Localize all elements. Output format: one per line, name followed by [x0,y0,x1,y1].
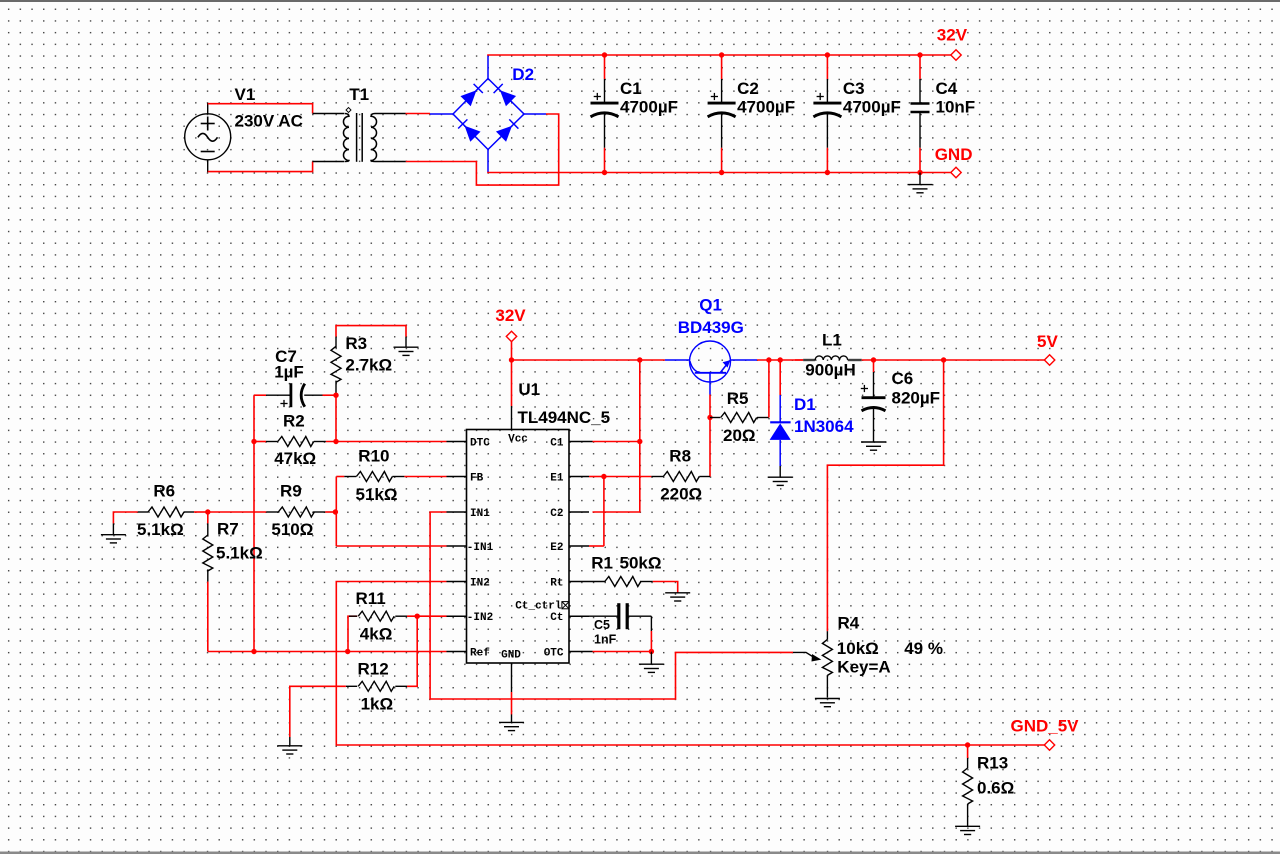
wire OTC pin [593,651,652,653]
wire R2 to DTC [326,441,447,443]
T1 secondary coil [371,114,377,162]
pin stub DTC [447,441,467,443]
R2 left lead [266,441,278,443]
L1 left lead [803,359,815,361]
wire to D1 [779,360,781,395]
svg-text:5.1kΩ: 5.1kΩ [216,544,263,563]
R11 right lead [395,615,407,617]
wire secondary top blue to bridge [430,113,453,115]
svg-text:230V AC: 230V AC [235,111,303,130]
R9 left lead [266,511,279,513]
R13 body [963,768,973,804]
R4 bottom lead [826,675,828,697]
svg-text:C6: C6 [892,369,914,388]
R2 right lead [314,441,326,443]
svg-text:C1: C1 [550,437,564,449]
wire feedback to R4 [827,360,943,631]
Q1 base stub [709,373,711,395]
Ct_ctrl no-connect box [562,602,569,609]
junction R5 [766,357,771,362]
svg-text:20Ω: 20Ω [723,426,756,445]
junction feedback [941,357,946,362]
wire blue Q1 collector [665,359,690,361]
resistor R5 [721,413,757,423]
svg-text:R13: R13 [977,754,1008,773]
R3 bottom lead [335,381,337,396]
wire secondary bottom to bridge right [406,114,559,185]
svg-text:TL494NC_5: TL494NC_5 [518,408,611,427]
pin stub IN2 [447,581,467,583]
junction C6 [871,357,876,362]
junction base/R5 [707,415,712,420]
junction R9/IN1 column [333,509,338,514]
R4 top lead [826,631,828,639]
R4 wiper arrow [812,654,822,662]
junction [719,52,724,57]
svg-text:L1: L1 [822,331,842,350]
svg-text:R7: R7 [217,520,239,539]
wire emitter to L1 [757,359,803,361]
svg-text:C2: C2 [737,79,759,98]
svg-text:GND: GND [501,650,521,662]
wire E1 pin [589,476,604,478]
svg-text:R10: R10 [358,447,389,466]
net connector GND_5V [1044,740,1054,750]
wire T1 secondary bottom black [375,161,406,163]
svg-text:T1: T1 [349,85,369,104]
svg-text:Q1: Q1 [699,296,722,315]
R1 left lead [589,581,606,583]
svg-text:R3: R3 [345,334,367,353]
junction Vcc rail [509,357,514,362]
wire E1 to R8 [604,476,652,478]
junction [917,52,922,57]
diode bridge D2 [453,79,524,150]
svg-text:2.7kΩ: 2.7kΩ [345,356,392,375]
svg-text:51kΩ: 51kΩ [356,485,398,504]
R4 wiper line [793,652,815,658]
svg-text:C1: C1 [620,79,642,98]
bridge diode top-left [460,90,476,106]
bridge diode bottom-left [465,126,481,142]
transistor Q1 BD439G [690,341,731,382]
svg-text:1µF: 1µF [274,363,304,382]
C7 straight plate [289,383,292,407]
junction Ref row [251,649,256,654]
wire rail to Q1 [512,359,665,361]
wire C5 right [627,615,651,617]
junction C1 row [637,439,642,444]
ground (D1) [768,477,793,485]
wire V1 top to T1 [208,104,313,114]
ground (C5) [639,664,664,672]
junction rail/C1C2 [637,357,642,362]
R13 bottom lead [967,804,969,826]
net connector 32V (lower) [506,331,516,341]
svg-text:OTC: OTC [544,647,564,659]
ground (R4) [815,699,840,707]
wire bridge - down [487,150,489,173]
svg-text:E2: E2 [550,542,563,554]
R10 left lead [344,476,356,478]
wire E2 up to E1 [603,477,605,547]
R7 bottom lead [207,569,209,581]
junction [825,170,830,175]
svg-text:10nF: 10nF [936,98,976,117]
wire IN1 to R4 wiper [430,512,793,699]
junction E1/E2 [601,474,606,479]
svg-text:5V: 5V [1037,332,1058,351]
svg-text:900µH: 900µH [805,361,855,380]
svg-text:U1: U1 [518,380,540,399]
wire R12 left to ground [290,686,346,737]
junction [602,170,607,175]
svg-text:5.1kΩ: 5.1kΩ [137,520,184,539]
net connector 5V [1044,355,1054,365]
wire C5 down [650,631,652,652]
wire Ref row [208,651,447,653]
svg-text:IN1: IN1 [470,508,490,520]
R4 body [822,639,832,675]
resistor R8 [663,472,699,482]
wire C7 left vertical [253,395,255,651]
svg-text:4700µF: 4700µF [843,98,901,117]
pin stub -IN2 [447,615,467,617]
pin stub E2 [569,545,589,547]
resistor R7 body [203,535,213,571]
svg-text:R11: R11 [356,589,386,608]
svg-text:R9: R9 [280,481,302,500]
junction R13 [965,742,970,747]
wire R7 to Ref row [207,582,209,652]
svg-text:Ct_ctrl: Ct_ctrl [515,600,562,612]
pin stub IN1 [447,511,467,513]
wire R5 to rail [768,360,770,418]
junction [917,170,922,175]
net connector 32V [951,50,961,60]
ground (C4) [908,173,933,193]
pin stub Ct [569,615,589,617]
resistor R2 [278,437,314,447]
R5 right lead [757,417,769,419]
wire blue to bridge right corner [524,113,546,115]
ground (R12) [277,746,302,754]
wire V1 bottom to T1 [208,162,313,172]
R6 left lead [138,511,148,513]
R8 left lead [651,476,663,478]
junction C7/R3 [333,393,338,398]
wire C1 pin [593,441,640,443]
svg-text:BD439G: BD439G [678,318,744,337]
resistor R7 [207,512,209,523]
svg-text:1kΩ: 1kΩ [361,695,394,714]
svg-text:32V: 32V [495,306,526,325]
svg-text:Vcc: Vcc [508,433,528,445]
wire bridge + up [487,55,489,79]
R6 right lead [184,511,194,513]
svg-text:-IN2: -IN2 [467,612,493,624]
wire 32V to rail [511,342,513,360]
junction C5/OTC [649,649,654,654]
op-amp U1 TL494NC_5 box [467,430,570,664]
Vcc pin stub [511,406,513,430]
wire -IN2 down to R12 [407,616,417,686]
bridge diode bottom-right [496,126,512,142]
resistor R11 body [358,611,394,621]
ground (R3) [394,347,419,355]
junction DTC/R3 column [333,439,338,444]
svg-text:R8: R8 [669,446,691,465]
pin stub -IN1 [447,545,467,547]
resistor R10 body [356,472,392,482]
AC source V1 [185,114,231,160]
wire to R9 [208,511,266,513]
resistor R9 [278,507,314,517]
wire R10 left to -IN1 [335,477,337,546]
pin stub C2 [569,511,589,513]
svg-text:FB: FB [470,472,484,484]
junction R2 left [251,439,256,444]
wire Ct to C5 [569,615,619,617]
ground (R6) [101,535,126,543]
svg-text:IN2: IN2 [470,577,490,589]
svg-text:C3: C3 [843,79,865,98]
R9 right lead [313,511,325,513]
C7 curved plate [301,384,305,407]
svg-text:R2: R2 [283,411,305,430]
wire T1 primary bottom [313,161,344,163]
wire T1 secondary top black [375,113,406,115]
T1 core line 1 [356,113,358,162]
R10 right lead [392,476,404,478]
GND pin stub [511,663,513,692]
svg-text:V1: V1 [235,85,256,104]
R1 right lead [640,581,653,583]
svg-text:R4: R4 [838,614,860,633]
svg-text:Rt: Rt [550,577,563,589]
L1 right lead [848,359,862,361]
svg-text:1N3064: 1N3064 [794,417,854,436]
capacitor C1 [604,55,606,79]
R12 right lead [395,685,407,687]
wire R11 to -IN2 [407,615,447,617]
ground (U1) [499,714,524,730]
junction D1 [778,357,783,362]
svg-text:4700µF: 4700µF [620,98,678,117]
wire GND pin [511,692,513,715]
Q1 emitter arrow [723,360,731,368]
wire GND bottom rail [487,172,951,174]
svg-text:510Ω: 510Ω [271,520,313,539]
svg-text:49 %: 49 % [904,639,943,658]
svg-text:DTC: DTC [470,437,490,449]
resistor R1 [605,577,641,587]
wire blue Q1 emitter out [731,359,758,361]
wire R11 left down to Ref [348,616,357,651]
wire L1 to 5V [862,359,1046,361]
capacitor C6 [873,360,875,372]
svg-text:GND_5V: GND_5V [1011,717,1080,736]
svg-text:4700µF: 4700µF [737,98,795,117]
svg-text:D1: D1 [794,395,816,414]
wire Q1 base down [709,395,711,477]
wire E2 pin [589,545,604,547]
wire V1 bottom stub [207,160,209,173]
R13 top lead [967,758,969,769]
wire R1 to ground [653,582,678,593]
wire IN2 to GND_5V rail [336,582,1046,746]
R5 left lead [710,417,720,419]
junction R6/R7/R9 [205,509,210,514]
wire to Vcc [511,360,513,406]
svg-text:R5: R5 [727,389,749,408]
wire R3 bottom to DTC row [335,395,337,441]
wire 32V top rail [487,54,951,56]
svg-text:C4: C4 [936,79,958,98]
R12 left lead [346,685,357,687]
bridge diode top-right [500,90,516,106]
ground (R1) [665,593,690,601]
T1 core line 2 [361,113,363,162]
junction [719,170,724,175]
svg-text:D2: D2 [512,65,534,84]
svg-text:47kΩ: 47kΩ [274,449,316,468]
svg-text:R12: R12 [358,660,389,679]
svg-text:Key=A: Key=A [837,658,890,677]
resistor R3 body [331,346,341,382]
svg-text:-IN1: -IN1 [467,542,494,554]
svg-text:10kΩ: 10kΩ [837,639,879,658]
svg-text:GND: GND [935,145,973,164]
svg-text:50kΩ: 50kΩ [620,553,662,572]
svg-text:4kΩ: 4kΩ [360,625,393,644]
ground (R13) [955,826,980,834]
svg-text:820µF: 820µF [892,389,941,408]
R8 right lead [699,476,710,478]
resistor R12 body [358,681,394,691]
wire R6 to ground [113,512,137,523]
D1 triangle [770,423,791,440]
R3 top lead [335,337,337,348]
T1 primary coil [343,114,349,162]
junction -IN2/R12 [415,614,420,619]
junction R11/Ref [345,649,350,654]
junction [825,52,830,57]
svg-text:Ref: Ref [470,647,490,659]
R7 top lead [207,523,209,536]
pin stub Ref [447,651,467,653]
wire T1 primary top [313,113,344,115]
wire C7 left [254,394,266,396]
svg-text:Ct: Ct [550,612,563,624]
capacitor C2 [721,55,723,79]
svg-text:1nF: 1nF [594,633,617,647]
wire secondary top red [406,113,431,115]
svg-text:R1: R1 [591,553,613,572]
resistor R6 body [148,507,184,517]
pin stub C1 [569,441,589,443]
svg-text:C5: C5 [594,618,610,632]
svg-text:C2: C2 [550,508,563,520]
svg-text:0.6Ω: 0.6Ω [977,779,1014,798]
svg-text:220Ω: 220Ω [660,485,702,504]
pin stub FB [447,476,467,478]
wire C1C2 to rail [593,360,640,512]
wire to R2 [254,441,266,443]
junction [602,52,607,57]
wire R3 top to ground [336,326,406,337]
wire C7 right [323,394,337,396]
capacitor C3 [826,55,828,79]
resistor R13 [967,745,969,758]
net connector GND [951,167,961,177]
ground (C6) [861,442,886,450]
svg-text:E1: E1 [550,472,564,484]
wire V1 top stub [207,103,209,114]
svg-text:R6: R6 [153,481,175,500]
capacitor C4 [919,55,921,79]
svg-text:32V: 32V [937,26,968,45]
pin stub OTC [569,651,589,653]
wire -IN1 row [336,545,446,547]
wire R10 to FB [404,476,446,478]
inductor L1 [795,359,803,361]
pin stub Rt [569,581,589,583]
pin stub E1 [569,476,589,478]
T1 phase marker [346,108,351,113]
